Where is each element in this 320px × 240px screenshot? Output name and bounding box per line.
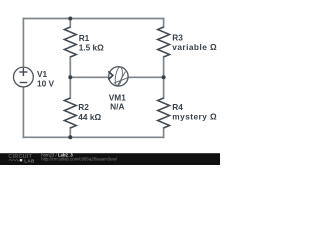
svg-text:http://circuitlab.com/c956a2f6: http://circuitlab.com/c956a2f6aaam3ew/ xyxy=(41,156,118,161)
svg-text:mystery Ω: mystery Ω xyxy=(172,111,217,121)
svg-text:N/A: N/A xyxy=(110,102,124,112)
svg-text:10 V: 10 V xyxy=(37,79,55,89)
svg-text:R2: R2 xyxy=(78,102,89,112)
svg-text:1.5 kΩ: 1.5 kΩ xyxy=(79,42,104,52)
svg-text:LAB: LAB xyxy=(24,159,35,164)
svg-text:V1: V1 xyxy=(37,69,48,79)
svg-text:44 kΩ: 44 kΩ xyxy=(78,112,101,122)
svg-text:R3: R3 xyxy=(172,32,183,42)
svg-text:variable Ω: variable Ω xyxy=(172,42,217,52)
